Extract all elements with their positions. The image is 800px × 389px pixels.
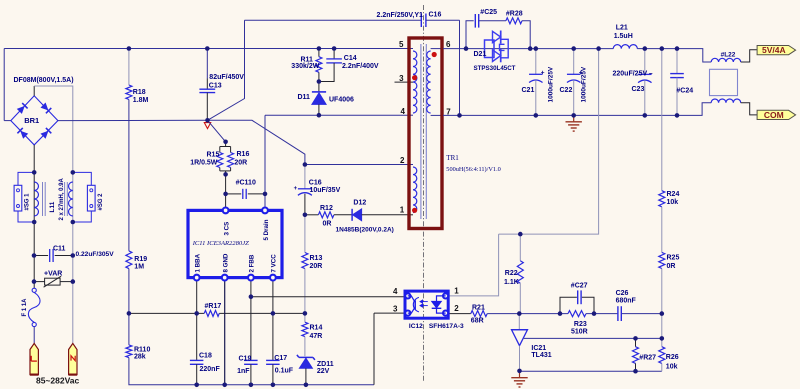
svg-text:#C24: #C24 — [676, 87, 693, 94]
svg-text:R21: R21 — [472, 304, 485, 311]
svg-text:0.1uF: 0.1uF — [275, 367, 294, 374]
svg-text:680nF: 680nF — [616, 297, 637, 304]
svg-text:R24: R24 — [667, 191, 680, 198]
svg-text:D11: D11 — [298, 94, 311, 101]
svg-text:C18: C18 — [199, 352, 212, 359]
svg-text:C21: C21 — [522, 87, 535, 94]
svg-text:#SG 1: #SG 1 — [25, 193, 31, 211]
svg-text:220uF/25V: 220uF/25V — [613, 71, 648, 78]
svg-text:1: 1 — [454, 287, 459, 296]
svg-text:1.1K: 1.1K — [504, 279, 519, 286]
svg-text:500uH(56:4:11)/V1.0: 500uH(56:4:11)/V1.0 — [446, 166, 501, 173]
svg-text:+: + — [541, 70, 545, 77]
svg-text:DF08M(800V,1.5A): DF08M(800V,1.5A) — [14, 77, 74, 84]
svg-text:C23: C23 — [632, 86, 645, 93]
svg-text:R19: R19 — [134, 256, 147, 263]
svg-text:R26: R26 — [666, 354, 679, 361]
svg-text:R110: R110 — [134, 346, 150, 353]
svg-text:68R: 68R — [471, 318, 484, 325]
svg-text:3: 3 — [399, 74, 404, 83]
svg-text:22V: 22V — [317, 368, 330, 375]
svg-text:1M: 1M — [134, 264, 144, 271]
svg-text:0R: 0R — [323, 220, 332, 227]
svg-text:3 CS: 3 CS — [223, 222, 230, 236]
svg-text:C26: C26 — [616, 290, 629, 297]
svg-text:2 FBB: 2 FBB — [249, 254, 256, 272]
svg-text:#L22: #L22 — [721, 52, 736, 59]
svg-text:20R: 20R — [310, 263, 323, 270]
svg-text:C13: C13 — [209, 83, 222, 90]
svg-text:−: − — [649, 70, 653, 77]
svg-text:1 BBA: 1 BBA — [195, 253, 202, 272]
svg-text:C17: C17 — [274, 355, 287, 362]
svg-text:COM: COM — [764, 110, 784, 120]
svg-text:C14: C14 — [344, 55, 357, 62]
svg-text:10k: 10k — [666, 364, 678, 371]
svg-text:330k/2W: 330k/2W — [291, 63, 319, 70]
svg-text:R23: R23 — [574, 321, 587, 328]
svg-text:#C25: #C25 — [480, 9, 497, 16]
svg-text:SFH617A-3: SFH617A-3 — [429, 323, 464, 330]
svg-text:2.2nF/400V: 2.2nF/400V — [342, 63, 379, 70]
svg-text:4: 4 — [401, 107, 406, 116]
svg-text:1.8M: 1.8M — [133, 97, 149, 104]
svg-text:R16: R16 — [237, 151, 250, 158]
svg-text:TR1: TR1 — [446, 154, 459, 162]
svg-text:BR1: BR1 — [24, 116, 39, 125]
svg-text:#SG 2: #SG 2 — [98, 193, 104, 211]
svg-text:#R27: #R27 — [639, 354, 656, 361]
svg-text:D21: D21 — [474, 51, 487, 58]
svg-text:82uF/450V: 82uF/450V — [209, 74, 244, 81]
svg-text:C16: C16 — [309, 179, 322, 186]
svg-text:D12: D12 — [353, 200, 366, 207]
svg-text:C11: C11 — [53, 245, 66, 252]
svg-text:0R: 0R — [667, 263, 676, 270]
svg-text:UF4006: UF4006 — [329, 96, 354, 103]
svg-text:1: 1 — [400, 206, 405, 215]
svg-text:IC12: IC12 — [409, 323, 423, 330]
svg-text:2: 2 — [454, 304, 459, 313]
svg-text:#R17: #R17 — [205, 303, 222, 310]
svg-text:R25: R25 — [667, 255, 680, 262]
svg-text:F 1 1A: F 1 1A — [22, 298, 28, 317]
svg-text:20R: 20R — [234, 159, 247, 166]
svg-text:2.2nF/250V,Y1: 2.2nF/250V,Y1 — [377, 12, 424, 19]
svg-text:1nF: 1nF — [237, 368, 250, 375]
svg-text:L21: L21 — [616, 25, 628, 32]
svg-text:TL431: TL431 — [531, 352, 551, 359]
svg-text:510R: 510R — [571, 328, 588, 335]
svg-text:C16: C16 — [429, 12, 442, 19]
svg-text:2: 2 — [400, 156, 405, 165]
svg-text:10k: 10k — [667, 199, 679, 206]
svg-text:1.5uH: 1.5uH — [614, 33, 633, 40]
svg-text:5 Drain: 5 Drain — [263, 219, 270, 240]
svg-text:85~282Vac: 85~282Vac — [36, 376, 80, 386]
svg-text:6: 6 — [446, 40, 451, 49]
svg-text:5V/4A: 5V/4A — [762, 45, 786, 55]
svg-text:5: 5 — [399, 40, 404, 49]
svg-text:10uF/35V: 10uF/35V — [310, 187, 341, 194]
svg-text:1000uF/25V: 1000uF/25V — [548, 66, 555, 102]
svg-text:#C27: #C27 — [571, 282, 588, 289]
svg-text:R14: R14 — [310, 325, 323, 332]
svg-text:IC11 ICE3AR2280JZ: IC11 ICE3AR2280JZ — [192, 240, 249, 247]
svg-text:4: 4 — [393, 287, 398, 296]
svg-text:R15: R15 — [207, 152, 220, 159]
svg-text:1R/0.5W: 1R/0.5W — [190, 159, 218, 166]
svg-text:+VAR: +VAR — [44, 271, 62, 278]
svg-text:28k: 28k — [134, 354, 146, 361]
svg-text:R13: R13 — [310, 255, 323, 262]
svg-text:R12: R12 — [320, 205, 333, 212]
svg-text:R18: R18 — [133, 89, 146, 96]
svg-text:7: 7 — [446, 107, 451, 116]
svg-text:220nF: 220nF — [200, 366, 221, 373]
svg-text:8 GND: 8 GND — [223, 253, 230, 272]
svg-text:R22: R22 — [505, 270, 518, 277]
svg-text:#C110: #C110 — [236, 180, 256, 187]
svg-text:L11: L11 — [49, 201, 56, 212]
svg-text:7 VCC: 7 VCC — [271, 254, 278, 273]
svg-text:3: 3 — [393, 305, 398, 314]
svg-text:C22: C22 — [560, 87, 573, 94]
svg-text:+: + — [294, 186, 298, 192]
svg-text:2 x 27mH, 0.9A: 2 x 27mH, 0.9A — [59, 177, 65, 220]
svg-text:47R: 47R — [310, 333, 323, 340]
svg-text:1N485B(200V,0.2A): 1N485B(200V,0.2A) — [336, 227, 394, 234]
svg-text:C19: C19 — [239, 356, 252, 363]
svg-text:#R28: #R28 — [506, 10, 523, 17]
svg-text:0.22uF/305V: 0.22uF/305V — [76, 251, 115, 258]
svg-text:STPS30L45CT: STPS30L45CT — [474, 65, 516, 72]
svg-text:1000uF/25V: 1000uF/25V — [581, 66, 588, 102]
